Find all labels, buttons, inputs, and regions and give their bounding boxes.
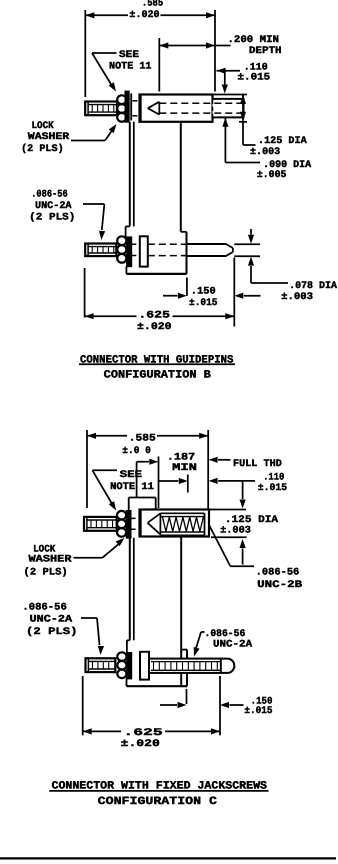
svg-text:MIN: MIN <box>172 463 197 474</box>
svg-text:±.005: ±.005 <box>257 170 287 181</box>
dim .078 DIA +-.003 <box>234 243 260 245</box>
svg-text:WASHER: WASHER <box>29 555 72 566</box>
dim .150 +-.015 (fig C) <box>186 689 188 704</box>
bottom page rule <box>0 857 336 859</box>
svg-text:NOTE 11: NOTE 11 <box>109 62 152 73</box>
bottom edge extension <box>211 536 247 538</box>
hidden guidepin lines (fig B) <box>148 243 187 245</box>
svg-text:.125 DIA: .125 DIA <box>225 515 278 526</box>
lock washer upper (fig B) <box>117 95 126 104</box>
guidepin (fig B) <box>187 243 227 245</box>
dim .625 +-.020 <box>84 268 86 318</box>
svg-text:WASHER: WASHER <box>28 132 69 143</box>
svg-text:±.015: ±.015 <box>238 73 271 84</box>
dim .125 DIA +-.003 <box>242 95 244 121</box>
svg-text:.086-56: .086-56 <box>256 568 300 579</box>
svg-text:.078 DIA: .078 DIA <box>289 281 337 292</box>
label FULL THD <box>209 457 218 463</box>
body bottom edge <box>126 273 186 275</box>
svg-text:.625: .625 <box>138 311 170 322</box>
svg-text:±.015: ±.015 <box>244 706 272 717</box>
svg-text:SEE: SEE <box>119 50 139 61</box>
dim .585 +-.020 (top overall) <box>84 10 86 97</box>
jackscrew socket block (fig C) <box>140 510 210 537</box>
lock washer upper (fig C) <box>117 511 126 520</box>
svg-text:FULL THD: FULL THD <box>233 459 282 470</box>
svg-text:.187: .187 <box>167 453 195 464</box>
boss .125 dia (fig B) <box>213 99 244 118</box>
svg-text:.625: .625 <box>123 728 162 739</box>
.086-56 UNC-2B label <box>209 525 231 567</box>
dim .585 +-.0 0 (fig C) <box>86 430 88 508</box>
svg-text:.200 MIN: .200 MIN <box>228 35 280 46</box>
stud upper (fig C) <box>84 517 117 531</box>
thread bore chamfer (fig C) <box>148 513 161 523</box>
svg-text:.585: .585 <box>142 0 163 10</box>
svg-text:±.003: ±.003 <box>220 525 251 536</box>
hidden hole .090 dia (fig B) <box>159 102 243 104</box>
svg-text:UNC-2A: UNC-2A <box>213 640 252 651</box>
dim .125 DIA +-.003 (fig C) <box>242 481 244 499</box>
svg-text:CONFIGURATION B: CONFIGURATION B <box>104 370 212 382</box>
svg-text:±.003: ±.003 <box>281 292 313 303</box>
flange bar upper (fig B) <box>125 92 128 122</box>
svg-text:±.015: ±.015 <box>189 298 218 309</box>
panel line <box>130 94 132 121</box>
jackscrew head plate (fig C) <box>140 652 149 680</box>
svg-text:±.015: ±.015 <box>258 483 287 494</box>
svg-text:.585: .585 <box>129 434 156 445</box>
svg-text:(2 PLS): (2 PLS) <box>29 212 75 224</box>
svg-text:(2 PLS): (2 PLS) <box>21 143 64 155</box>
dim .110 +-.015 <box>217 70 241 72</box>
svg-text:(2 PLS): (2 PLS) <box>24 566 68 578</box>
stud lower (fig C) <box>86 658 116 672</box>
thread zigzag <box>163 517 204 531</box>
hidden stud lines (fig C upper) <box>131 517 140 519</box>
flange bar lower (fig B) <box>127 237 131 266</box>
top edge extension <box>209 509 246 511</box>
svg-text:.086-56: .086-56 <box>31 190 67 201</box>
dim .110 +-.015 (fig C) <box>209 478 218 484</box>
svg-text:LOCK: LOCK <box>33 544 55 555</box>
svg-text:±.0 0: ±.0 0 <box>122 446 151 457</box>
svg-text:UNC-2A: UNC-2A <box>30 615 73 626</box>
top edge extension <box>213 94 248 96</box>
flange bar lower (fig C) <box>127 653 131 679</box>
dim .090 DIA +-.005 <box>222 118 228 127</box>
jackscrew threaded shank (fig C) <box>149 659 221 673</box>
svg-text:UNC-2A: UNC-2A <box>35 201 72 212</box>
guidepin head plate (fig B) <box>140 236 148 266</box>
svg-text:±.003: ±.003 <box>250 147 280 158</box>
svg-text:±.020: ±.020 <box>121 739 160 750</box>
svg-text:±.020: ±.020 <box>137 322 172 333</box>
hidden stud lines <box>132 100 139 102</box>
step block on top (fig C) <box>129 497 156 499</box>
bottom edge extension tick <box>239 121 247 123</box>
stud upper (fig B) <box>85 102 117 116</box>
connector body (fig B) <box>129 122 131 227</box>
svg-text:.090 DIA: .090 DIA <box>263 160 311 171</box>
socket body block (fig B) <box>140 95 213 122</box>
svg-text:LOCK: LOCK <box>32 121 54 132</box>
jackscrew dome tip (fig C) <box>221 659 234 673</box>
hidden stud lines lower <box>131 243 140 245</box>
lock washer lower (fig C) <box>117 652 126 661</box>
flange bar upper (fig C) <box>127 511 131 538</box>
svg-text:.150: .150 <box>191 286 216 297</box>
svg-text:.110: .110 <box>263 472 284 483</box>
dim .150 +-.015 <box>186 278 188 297</box>
svg-text:DEPTH: DEPTH <box>249 46 282 57</box>
svg-text:NOTE 11: NOTE 11 <box>110 482 154 493</box>
svg-text:SEE: SEE <box>120 470 143 481</box>
svg-text:±.020: ±.020 <box>129 10 159 21</box>
svg-text:UNC-2B: UNC-2B <box>257 580 302 591</box>
stud lower (fig B) <box>85 244 116 257</box>
internal thread full thd (fig C) <box>160 512 204 514</box>
hidden face line in boss <box>212 100 214 117</box>
svg-text:.086-56: .086-56 <box>22 603 66 614</box>
svg-text:CONFIGURATION C: CONFIGURATION C <box>98 796 218 808</box>
svg-text:(2 PLS): (2 PLS) <box>26 626 78 638</box>
dim .625 +-.020 (fig C) <box>82 676 84 735</box>
connector body (fig C) <box>129 538 131 641</box>
hole chamfer (fig B) <box>148 102 160 108</box>
lock washer lower (fig B) <box>117 236 126 245</box>
svg-text:.125 DIA: .125 DIA <box>258 136 307 147</box>
body bottom edge (fig C) <box>127 685 188 687</box>
dim .200 MIN DEPTH <box>158 38 160 92</box>
